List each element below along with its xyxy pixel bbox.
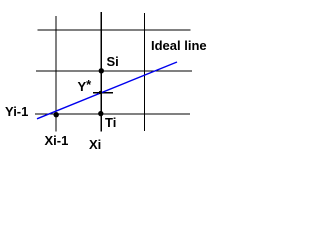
label: Ti bbox=[105, 118, 116, 128]
wire: grid vertical line v3 bbox=[143, 13, 145, 131]
label: Y* bbox=[78, 82, 92, 92]
wire: grid horizontal line h2 bbox=[36, 70, 192, 72]
label: Xi bbox=[89, 140, 101, 150]
wire: ideal line (blue) bbox=[37, 62, 177, 119]
wire: grid horizontal line h3 (scan line Yi-1) bbox=[35, 113, 190, 115]
node Ti: dot at (101,113.4) bbox=[98, 111, 103, 116]
wire: grid vertical line v2 (Xi column) bbox=[100, 12, 102, 132]
node Si: dot at (101.3,70.8) bbox=[99, 68, 104, 73]
node Xi-1: dot at (56,114) bbox=[54, 112, 59, 117]
wire: Y* tick mark on Xi column bbox=[93, 92, 113, 94]
label: Yi-1 bbox=[5, 107, 28, 117]
wire: grid vertical line v1 (Xi-1 column) bbox=[55, 16, 57, 131]
node Y*: small dot where ideal line crosses tick bbox=[99, 91, 102, 94]
wire: grid horizontal line h1 bbox=[38, 29, 191, 31]
label: Xi-1 bbox=[45, 136, 69, 146]
label: Si bbox=[107, 57, 119, 67]
label: Ideal line bbox=[151, 41, 207, 51]
